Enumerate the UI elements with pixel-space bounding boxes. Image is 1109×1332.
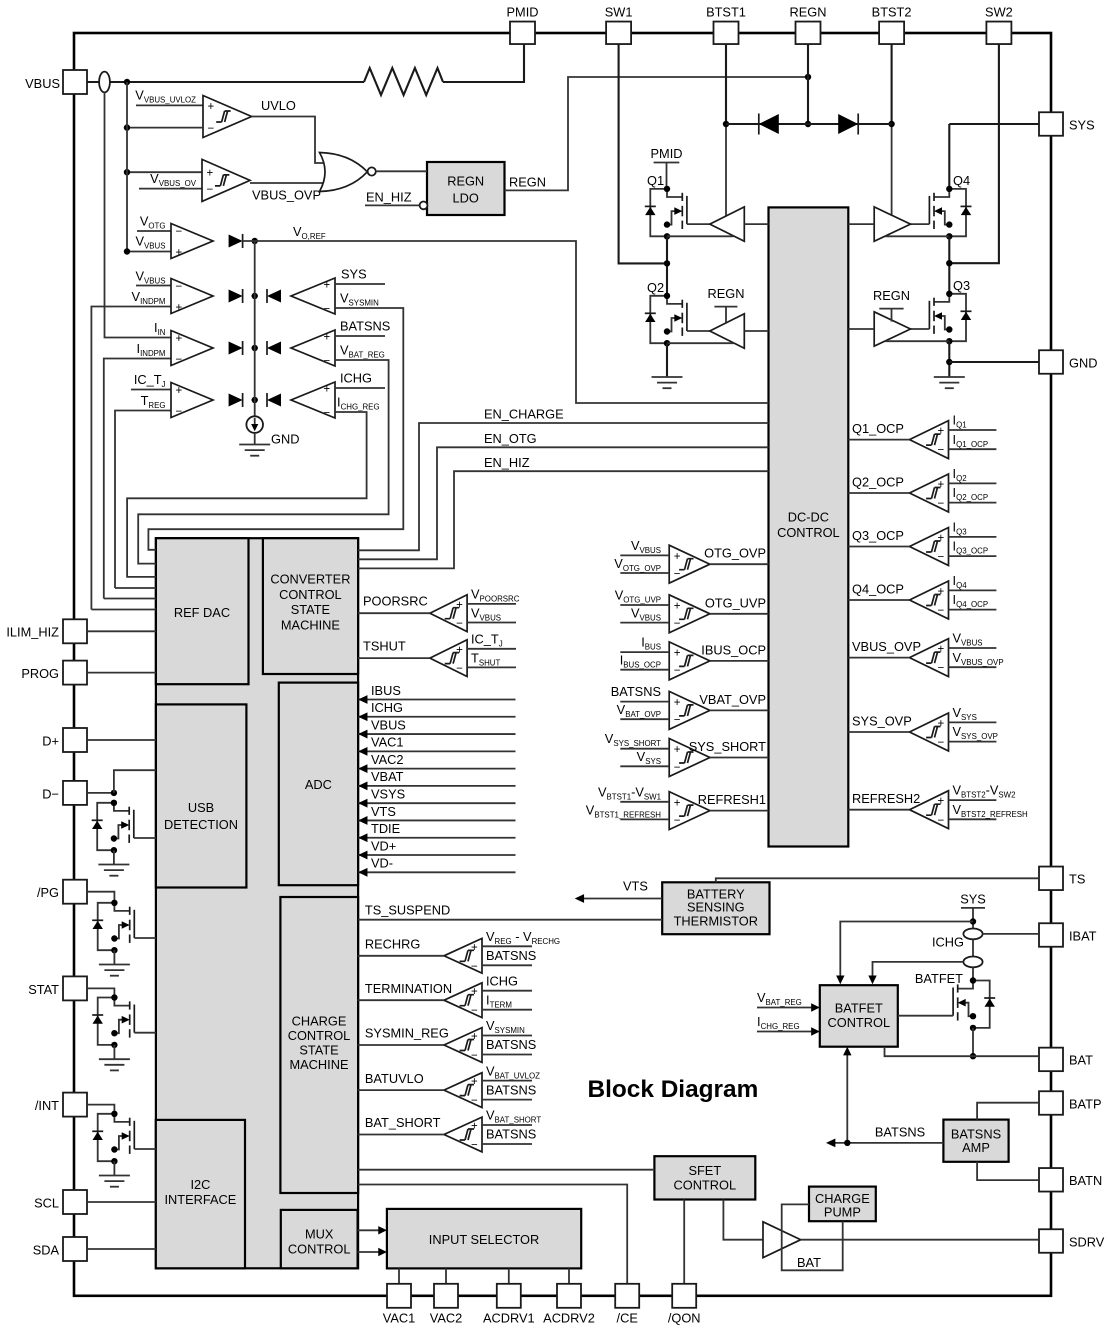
wire min chain (254, 241, 256, 416)
label V_BAT_REG in (757, 990, 802, 1007)
pin REGN (790, 5, 827, 45)
wire drv4 in (848, 223, 874, 225)
label VTS (623, 878, 648, 893)
svg-text:SFET: SFET (688, 1163, 721, 1178)
svg-text:IBUS: IBUS (371, 683, 401, 698)
wire SDRV (801, 1239, 1039, 1241)
svg-text:D−: D− (42, 786, 59, 801)
svg-text:+: + (938, 586, 945, 598)
wire EN_HIZ in (365, 204, 420, 206)
wire Q3 gate (911, 328, 930, 330)
wire ADC VSYS (358, 786, 515, 807)
label TS_SUSPEND (365, 902, 450, 917)
svg-text:RECHRG: RECHRG (365, 937, 420, 952)
svg-text:SYS_OVP: SYS_OVP (852, 714, 912, 729)
wire drv1 out (744, 223, 768, 225)
pin SYS (1039, 112, 1095, 136)
wire ADC VD- (358, 856, 515, 877)
diode r2a (229, 289, 243, 303)
wire ADC VTS (358, 804, 515, 825)
label V_INDPM (132, 289, 166, 306)
svg-text:ICHG: ICHG (371, 700, 403, 715)
wire NOR out (376, 170, 427, 172)
svg-text:VBAT: VBAT (371, 769, 404, 784)
block I2C INTERFACE (156, 1120, 245, 1268)
wire VBUS to OVP plus (127, 171, 202, 173)
svg-text:BATUVLO: BATUVLO (365, 1071, 424, 1086)
pin D- (42, 781, 87, 805)
svg-text:−: − (938, 552, 945, 564)
diode r4a (229, 393, 243, 407)
svg-text:REGN: REGN (447, 174, 484, 189)
label V_SYSMIN r2 (340, 291, 379, 308)
svg-text:SYS: SYS (960, 892, 986, 907)
wire ADC VAC2 (358, 752, 515, 773)
svg-text:SYS: SYS (1069, 117, 1095, 132)
wire Q4 gate (911, 223, 930, 225)
wire vbus vertical (126, 82, 128, 252)
wire resistor to PMID (443, 44, 524, 82)
transistor Q1 (645, 186, 687, 240)
wire BTST1 to driver (725, 124, 727, 216)
comparator Q4_OCP (848, 573, 996, 619)
wire SFET line (358, 1169, 655, 1171)
svg-text:−: − (207, 184, 214, 196)
node UVLO minus (124, 124, 130, 130)
block SFET CONTROL (654, 1156, 755, 1199)
svg-text:−: − (938, 737, 945, 749)
label SYS r2 (341, 267, 367, 282)
svg-text:THERMISTOR: THERMISTOR (674, 913, 758, 928)
svg-text:ICHG: ICHG (340, 371, 372, 386)
gate driver Q1 (710, 207, 745, 241)
svg-text:DC-DC: DC-DC (788, 510, 829, 525)
gate driver Q3 (874, 312, 910, 346)
label ICHG r4 (340, 371, 372, 386)
wire SYS top (949, 123, 1039, 125)
svg-text:BATSNS: BATSNS (486, 1037, 536, 1052)
block CONVERTER CONTROL STATE MACHINE (263, 538, 358, 674)
wire drv3 in (848, 328, 874, 330)
pin PROG (21, 661, 87, 685)
wire /PG gate (134, 937, 156, 939)
label V_VBUS_UVLOZ (135, 88, 196, 105)
wire Q1 src return (667, 235, 734, 237)
wire BATSNS up (843, 1047, 851, 1143)
nor gate (320, 153, 376, 192)
pin /INT (35, 1093, 87, 1117)
node SW2 (946, 260, 952, 266)
label I_CHG_REG in (757, 1014, 800, 1031)
node BTST1 (723, 121, 729, 127)
wire /INT gate (134, 1148, 156, 1150)
ground STAT fet (99, 1059, 130, 1070)
wire Q3 to gnd (948, 341, 950, 377)
label Block Diagram (588, 1076, 759, 1103)
wire PMID stub (654, 163, 680, 189)
svg-text:Q3: Q3 (953, 278, 970, 293)
svg-text:+: + (938, 644, 945, 656)
wire V_BAT_REG in (757, 1003, 820, 1011)
svg-text:−: − (938, 815, 945, 827)
pin BTST2 (872, 5, 912, 45)
current sense ellipse I_IN (99, 72, 110, 93)
diode r3a (229, 341, 243, 355)
op-amp ICHG compare (291, 382, 335, 420)
comparator VBUS_OVP (202, 159, 250, 201)
svg-text:CONTROL: CONTROL (674, 1177, 737, 1192)
pin /PG (37, 880, 87, 904)
label Q1 (647, 173, 664, 188)
transistor Q3 (929, 291, 971, 345)
pin SW2 (985, 5, 1013, 45)
svg-text:+: + (324, 332, 331, 344)
svg-text:CONTROL: CONTROL (828, 1015, 891, 1030)
label BATSNS r3 (340, 319, 390, 334)
svg-text:+: + (938, 479, 945, 491)
pin PMID (507, 5, 539, 45)
wire TS_SUSPEND (358, 919, 662, 921)
svg-text:ILIM_HIZ: ILIM_HIZ (6, 625, 59, 640)
svg-text:IC_TJ: IC_TJ (134, 372, 166, 389)
wire TS (716, 878, 1039, 882)
gate driver SFET (763, 1222, 801, 1258)
wire T_REG refdac (115, 587, 156, 589)
wire EN_HIZ (358, 471, 769, 568)
current source (246, 416, 263, 433)
svg-text:−: − (176, 226, 183, 238)
wire STAT (87, 988, 114, 997)
wire ADC ICHG (358, 700, 515, 721)
pin VAC1 (383, 1284, 415, 1326)
transistor Q4 (929, 186, 971, 240)
wire REGN net (505, 77, 809, 190)
comparator RECHRG (358, 929, 560, 973)
svg-text:MACHINE: MACHINE (289, 1057, 348, 1072)
wire /QON stub (683, 1200, 685, 1285)
node D- (111, 790, 117, 796)
op-amp thermal compare (171, 383, 213, 419)
block INPUT SELECTOR (387, 1209, 581, 1269)
wire BATSNS r3 (335, 335, 385, 337)
svg-text:SW1: SW1 (605, 5, 633, 20)
svg-text:+: + (471, 942, 478, 954)
label REGN q2 (708, 286, 745, 301)
wire STAT gate (134, 1032, 156, 1034)
svg-text:ICHG: ICHG (932, 934, 964, 949)
label EN_HIZ ldo (366, 190, 412, 205)
wire T_REG (115, 411, 171, 589)
wire /PG (87, 892, 114, 903)
svg-text:BAT: BAT (1069, 1053, 1093, 1068)
label VBUS_OVP (252, 188, 321, 203)
label Q4 (953, 173, 970, 188)
bubble EN_HIZ (420, 202, 428, 210)
block BATTERY SENSING THERMISTOR (662, 882, 769, 934)
svg-text:VTS: VTS (371, 804, 396, 819)
label BATFET (915, 971, 963, 986)
ground current source (239, 445, 270, 456)
svg-text:OTG_OVP: OTG_OVP (704, 546, 766, 561)
svg-text:EN_HIZ: EN_HIZ (366, 190, 412, 205)
wire SDA (87, 1248, 156, 1250)
wire Q3 src return (885, 340, 949, 342)
wire I_CHG_REG loop (127, 412, 367, 577)
wire D- src gnd (113, 850, 115, 864)
wire SW2 (949, 44, 999, 263)
diode boot2 (838, 114, 858, 135)
gate driver Q4 (874, 207, 910, 241)
svg-text:INPUT SELECTOR: INPUT SELECTOR (429, 1232, 539, 1247)
svg-text:Q4: Q4 (953, 173, 970, 188)
svg-text:BATSNS: BATSNS (611, 684, 661, 699)
svg-text:VAC1: VAC1 (383, 1311, 415, 1326)
wire BATP loop (977, 1103, 1039, 1120)
transistor BATFET (953, 977, 995, 1031)
wire col mid (972, 939, 974, 956)
wire VTS arrow (575, 894, 663, 903)
pin SCL (34, 1190, 87, 1214)
node V_VBUS r1 (124, 248, 130, 254)
svg-text:STATE: STATE (291, 602, 330, 617)
svg-text:+: + (176, 385, 183, 397)
svg-text:PMID: PMID (507, 5, 539, 20)
comparator VBAT_OVP (611, 684, 769, 729)
wire ichg to batfet box (868, 962, 963, 984)
svg-text:−: − (471, 961, 478, 973)
svg-text:IBAT: IBAT (1069, 928, 1097, 943)
label EN_OTG (484, 431, 537, 446)
wire V_O,REF (243, 241, 769, 403)
pin VAC2 (430, 1284, 462, 1326)
label V_VBUS r2 (135, 269, 165, 286)
wire BATFET src (972, 1028, 974, 1056)
svg-text:+: + (471, 1076, 478, 1088)
diode boot1 (759, 114, 779, 135)
svg-text:−: − (471, 1095, 478, 1107)
svg-text:CHARGE: CHARGE (292, 1013, 347, 1028)
label T_REG (141, 393, 166, 410)
wire BTST1 (725, 44, 727, 124)
svg-text:I2C: I2C (190, 1177, 210, 1192)
svg-text:−: − (938, 445, 945, 457)
node BTST2 (888, 121, 894, 127)
svg-text:/PG: /PG (37, 885, 59, 900)
svg-text:BATSNS: BATSNS (340, 319, 390, 334)
wire BATN loop (977, 1162, 1039, 1180)
svg-text:VBUS_OVP: VBUS_OVP (252, 188, 321, 203)
svg-text:TERMINATION: TERMINATION (365, 981, 452, 996)
svg-text:+: + (674, 648, 681, 660)
svg-text:GND: GND (1069, 355, 1097, 370)
svg-text:+: + (324, 280, 331, 292)
transistor /PG fet (92, 900, 134, 954)
svg-text:POORSRC: POORSRC (363, 594, 428, 609)
gate driver Q2 (710, 314, 745, 348)
svg-text:ACDRV2: ACDRV2 (543, 1311, 595, 1326)
pin /QON (668, 1284, 701, 1326)
block main digital core (156, 538, 358, 1268)
svg-text:MUX: MUX (305, 1226, 334, 1241)
wire I_INDPM refdac (104, 598, 156, 600)
wire VBUS rail (87, 81, 364, 83)
ground D- fet (98, 865, 129, 876)
pin SDRV (1039, 1229, 1105, 1253)
svg-text:+: + (674, 797, 681, 809)
svg-text:CONTROL: CONTROL (288, 1242, 351, 1257)
pin /CE (615, 1284, 639, 1326)
wire REGN pin (807, 44, 809, 124)
wire ACDRV1 stub (508, 1268, 510, 1284)
pin SDA (33, 1237, 87, 1261)
svg-text:SYS_SHORT: SYS_SHORT (689, 739, 766, 754)
node r3 (252, 345, 258, 351)
svg-text:/INT: /INT (35, 1098, 59, 1113)
wire BATSNS amp out (826, 1139, 943, 1148)
svg-text:EN_HIZ: EN_HIZ (484, 455, 530, 470)
wire PROG (87, 672, 156, 674)
svg-text:EN_OTG: EN_OTG (484, 431, 537, 446)
comparator TERMINATION (358, 973, 532, 1017)
wire ADC IBUS (358, 683, 515, 704)
current sense IBAT (963, 929, 982, 940)
svg-text:ADC: ADC (305, 777, 332, 792)
wire Q2 to gnd (666, 343, 668, 377)
svg-text:TDIE: TDIE (371, 821, 400, 836)
wire D- (87, 792, 114, 794)
ground Q3 (934, 377, 965, 388)
current sense ICHG (963, 957, 982, 968)
svg-text:CONTROL: CONTROL (288, 1028, 351, 1043)
wire MUX arrow1 (358, 1226, 387, 1234)
svg-text:SYS: SYS (341, 267, 367, 282)
block CHARGE PUMP (809, 1187, 876, 1222)
label I_CHG_REG r4 (337, 395, 380, 412)
wire BTST2 (891, 44, 893, 124)
svg-text:VAC2: VAC2 (430, 1311, 462, 1326)
svg-text:+: + (471, 986, 478, 998)
svg-text:DETECTION: DETECTION (164, 817, 238, 832)
svg-text:−: − (176, 281, 183, 293)
svg-text:CONTROL: CONTROL (777, 525, 840, 540)
comparator BAT_SHORT (358, 1108, 542, 1152)
svg-text:+: + (176, 247, 183, 259)
svg-text:SCL: SCL (34, 1195, 59, 1210)
svg-text:+: + (674, 601, 681, 613)
transistor STAT fet (92, 994, 134, 1048)
wire Q2 src return (667, 342, 734, 344)
comparator Q3_OCP (848, 519, 996, 565)
wire EN_CHARGE (358, 423, 769, 550)
transistor D- fet (92, 800, 134, 854)
wire /INT (87, 1105, 114, 1114)
comparator POORSRC (358, 587, 520, 632)
wire ADC VD+ (358, 838, 515, 859)
comparator VBUS_OVP (848, 631, 1003, 677)
svg-text:REGN: REGN (790, 5, 827, 20)
label UVLO (261, 98, 296, 113)
svg-text:−: − (456, 663, 463, 675)
svg-text:+: + (471, 1121, 478, 1133)
label BAT loop (797, 1255, 821, 1270)
op-amp VINDPM compare (171, 279, 213, 315)
wire SYS column (972, 908, 974, 929)
wire OVP out (250, 182, 324, 184)
svg-text:LDO: LDO (453, 191, 479, 206)
node GND tap (946, 359, 952, 365)
wire V_VBUS r1 (127, 251, 171, 253)
wire VAC1 stub (398, 1268, 400, 1284)
svg-text:D+: D+ (42, 733, 59, 748)
svg-text:TSHUT: TSHUT (363, 639, 406, 654)
block REF DAC (156, 538, 249, 684)
svg-text:+: + (208, 101, 215, 113)
label EN_HIZ (484, 455, 530, 470)
op-amp IINDPM compare (171, 331, 213, 367)
svg-text:+: + (938, 796, 945, 808)
pin ACDRV2 (543, 1284, 595, 1326)
svg-text:PMID: PMID (651, 146, 683, 161)
wire boot row right (808, 123, 892, 125)
wire EN_OTG (358, 447, 769, 559)
wire V_OTG (137, 230, 171, 232)
svg-text:−: − (324, 304, 331, 316)
wire V_INDPM refdac (91, 609, 155, 611)
svg-text:USB: USB (188, 800, 214, 815)
wire Q2 gate (687, 330, 710, 332)
wire V_VBUS r2 (136, 285, 171, 287)
wire ADC TDIE (358, 821, 515, 842)
wire GND pin (949, 361, 1039, 363)
node r4 (252, 397, 258, 403)
wire Q4-Q3 (948, 236, 950, 293)
wire ADC VBAT (358, 769, 515, 790)
node REGN pin tap (805, 74, 811, 80)
node REGN diode row (805, 121, 811, 127)
wire D- gate (134, 837, 156, 839)
ground /INT fet (99, 1176, 130, 1187)
svg-text:VBUS: VBUS (371, 717, 406, 732)
svg-text:+: + (938, 532, 945, 544)
wire V_VBUS_OV (139, 188, 202, 190)
svg-text:VBUS_OVP: VBUS_OVP (852, 639, 921, 654)
svg-text:REF DAC: REF DAC (174, 605, 230, 620)
svg-text:REFRESH1: REFRESH1 (698, 792, 766, 807)
svg-text:TS: TS (1069, 872, 1085, 887)
svg-text:REFRESH2: REFRESH2 (852, 791, 920, 806)
comparator TSHUT (358, 632, 516, 677)
label V_VBUS r1 (135, 234, 165, 251)
wire REGN q2 stub (714, 307, 737, 323)
label V_O,REF (293, 224, 326, 241)
svg-text:BATP: BATP (1069, 1096, 1101, 1111)
svg-text:Q4_OCP: Q4_OCP (852, 582, 904, 597)
svg-text:UVLO: UVLO (261, 98, 296, 113)
node SW1 (664, 260, 670, 266)
svg-text:−: − (456, 618, 463, 630)
comparator IBUS_OCP (620, 635, 769, 680)
op-amp VBAT reg compare (291, 330, 335, 368)
svg-text:+: + (456, 599, 463, 611)
svg-text:−: − (208, 123, 215, 135)
svg-text:STAT: STAT (28, 982, 59, 997)
svg-text:VD+: VD+ (371, 838, 396, 853)
svg-text:+: + (674, 551, 681, 563)
svg-text:IBUS_OCP: IBUS_OCP (701, 642, 766, 657)
label IC_T_J (134, 372, 166, 389)
pin SW1 (605, 5, 633, 45)
op-amp SYS min compare (291, 278, 335, 316)
